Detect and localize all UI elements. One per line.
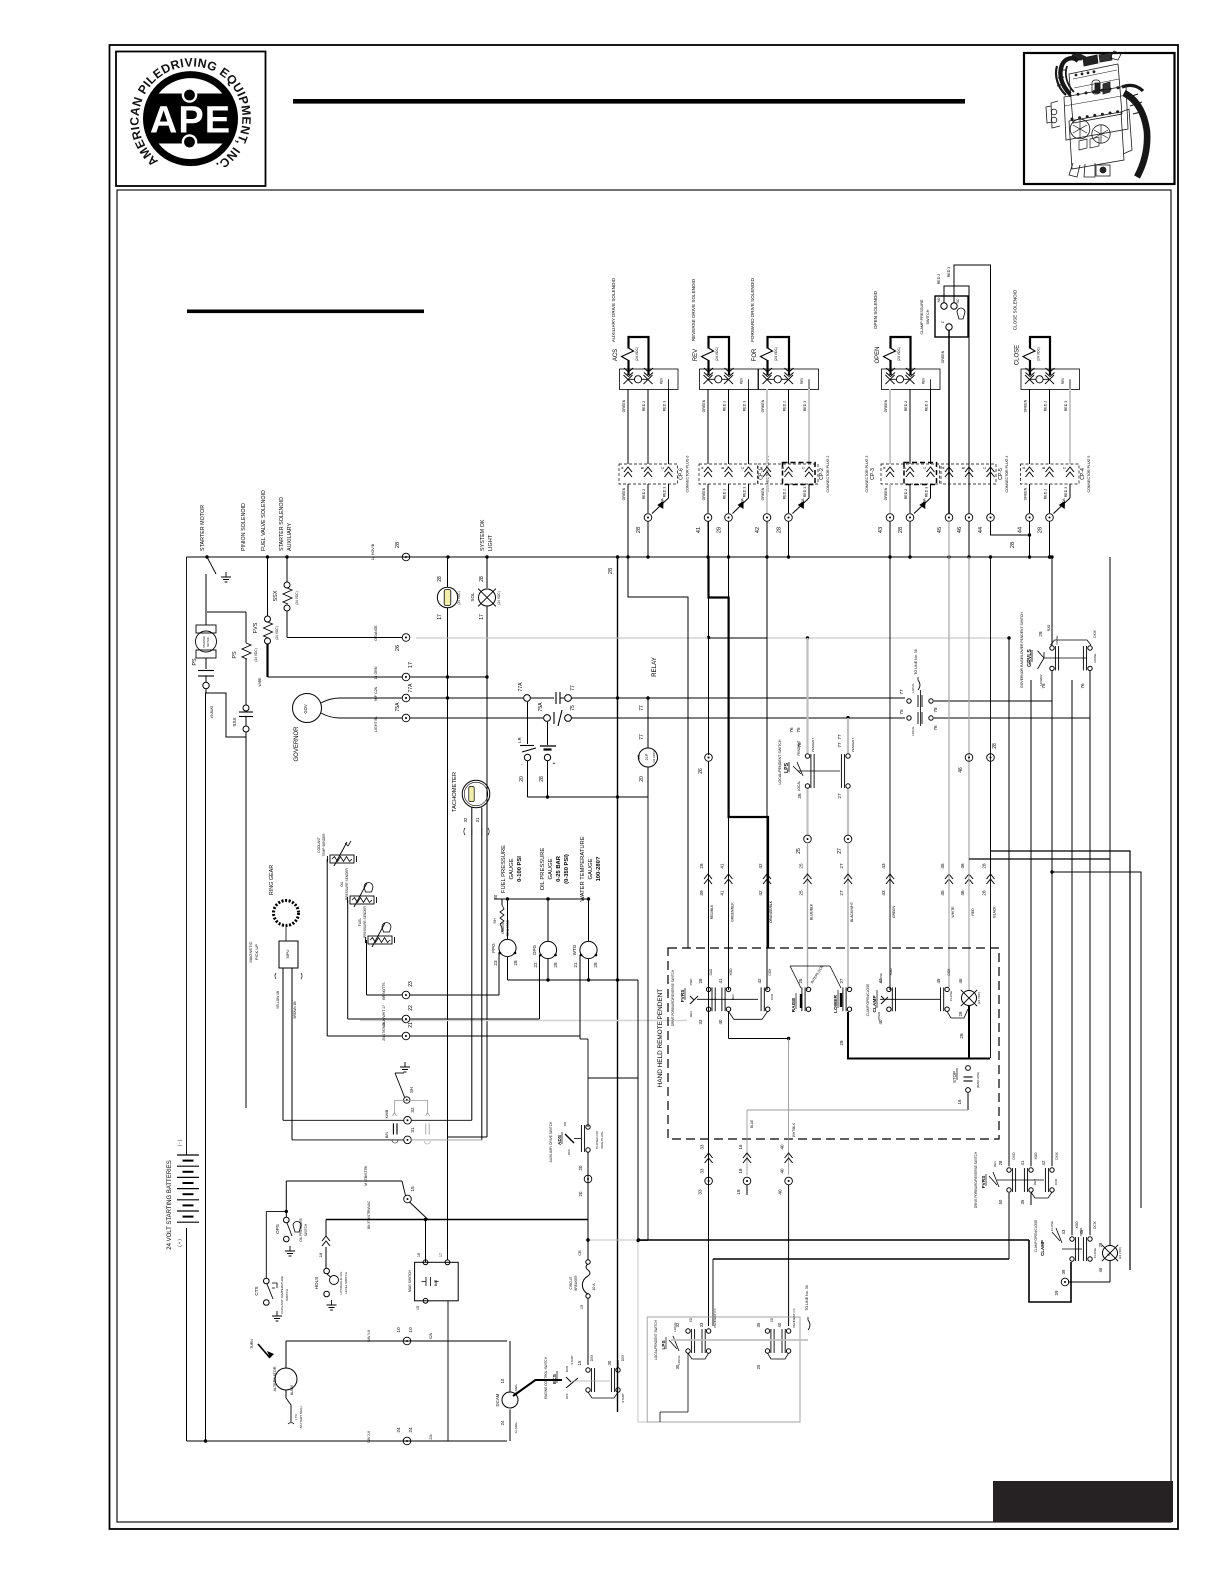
svg-text:WTG: WTG	[572, 944, 577, 955]
switch SH	[395, 1072, 404, 1074]
wire 27 to pendant	[847, 843, 849, 990]
svg-text:TACHOMETER: TACHOMETER	[452, 772, 458, 812]
svg-text:SWITCH: SWITCH	[304, 1223, 308, 1236]
svg-text:DOX: DOX	[768, 968, 772, 976]
wire PS branch down	[245, 737, 247, 1108]
contact FVRS 41	[726, 987, 730, 991]
svg-text:CP-4: CP-4	[1080, 468, 1086, 480]
svg-text:22: 22	[533, 962, 538, 968]
contact ECS 15	[586, 1368, 590, 1372]
wire OPEN coil loop	[891, 337, 911, 375]
svg-text:M 3TB/STTB: M 3TB/STTB	[364, 1165, 368, 1185]
svg-text:RED/BLK: RED/BLK	[710, 904, 714, 919]
svg-text:LOCAL: LOCAL	[911, 683, 915, 693]
svg-text:43: 43	[881, 863, 886, 869]
splice diode FOR	[793, 498, 810, 514]
svg-text:-: -	[521, 762, 523, 768]
terminal 21	[402, 1032, 410, 1040]
wire 35 run dark 1259	[713, 1258, 1009, 1260]
svg-text:YELLOW 1B: YELLOW 1B	[276, 991, 280, 1009]
svg-text:46: 46	[957, 527, 963, 533]
svg-text:RED 2: RED 2	[723, 489, 727, 500]
svg-text:RED 2: RED 2	[1044, 401, 1048, 412]
svg-text:PENDENT: PENDENT	[811, 738, 815, 753]
terminal 33 lower	[705, 1177, 713, 1185]
title underline	[187, 310, 424, 314]
wire LPS2 down	[687, 1353, 689, 1412]
svg-text:10: 10	[396, 1327, 402, 1333]
svg-text:CLOSE: CLOSE	[1050, 1221, 1054, 1231]
svg-text:C: C	[923, 466, 927, 469]
lamp G remote	[1103, 1246, 1118, 1261]
svg-text:ROOA: ROOA	[801, 497, 805, 507]
wire DCAM to ECS heavy	[513, 1380, 562, 1396]
tach wires	[471, 808, 473, 1121]
valve connector FOR	[759, 369, 819, 390]
circuit breaker CB	[586, 1260, 590, 1264]
svg-text:33: 33	[698, 1019, 703, 1024]
svg-text:77A: 77A	[408, 683, 414, 693]
wire ground branch	[206, 693, 246, 737]
svg-text:28: 28	[636, 527, 642, 533]
terminal 18 lower	[743, 1177, 751, 1185]
svg-text:A: A	[942, 466, 946, 469]
wire CLOSE B red2	[1049, 389, 1051, 464]
svg-text:20: 20	[639, 776, 645, 782]
svg-text:28: 28	[1038, 527, 1044, 533]
svg-text:28: 28	[982, 863, 987, 869]
svg-text:REV: REV	[693, 349, 699, 361]
svg-text:43: 43	[881, 890, 886, 896]
svg-text:ORANGE/BLK: ORANGE/BLK	[769, 900, 773, 923]
actuator FVRS	[697, 998, 758, 1000]
valve connector ACS	[620, 369, 679, 390]
svg-text:COOLANT: COOLANT	[317, 837, 321, 852]
wire ACS A green	[627, 389, 629, 464]
svg-text:30: 30	[675, 1364, 680, 1369]
svg-text:DRIVE FORWARD/REVERSE SWITCH: DRIVE FORWARD/REVERSE SWITCH	[671, 969, 675, 1026]
svg-text:BLK/WHT 1?: BLK/WHT 1?	[382, 1005, 386, 1025]
starter motor M	[205, 574, 207, 625]
svg-text:77: 77	[639, 734, 645, 740]
terminal 77A mid	[524, 695, 531, 702]
svg-text:46: 46	[1098, 1267, 1103, 1272]
terminal 28 splice	[987, 754, 995, 762]
jumper LPS2 a	[688, 1353, 709, 1359]
fuel pressure gauge FPG	[499, 939, 516, 956]
svg-text:16: 16	[738, 1144, 743, 1149]
wire 28 vertical main bus	[617, 557, 619, 1412]
splice diode CLOSE	[1054, 498, 1071, 514]
terminal 10	[403, 1337, 411, 1345]
svg-text:A: A	[621, 466, 625, 469]
wire 77A run	[410, 697, 523, 699]
svg-text:17: 17	[479, 614, 485, 620]
svg-text:(24 VDC): (24 VDC)	[977, 992, 981, 1005]
svg-text:15: 15	[580, 1305, 584, 1309]
splice 42 wire	[763, 874, 771, 884]
svg-text:FORWARD DRIVE SOLENOID: FORWARD DRIVE SOLENOID	[750, 277, 755, 341]
svg-text:OPEN: OPEN	[877, 1012, 881, 1021]
svg-text:ON: ON	[563, 1122, 567, 1127]
hydraulic oil level switch HOLS	[324, 1268, 330, 1274]
contact ADS	[586, 1125, 590, 1129]
wire LPS2 gray bus	[671, 1339, 808, 1341]
svg-text:75: 75	[899, 709, 904, 715]
contact clamp 45	[945, 987, 949, 991]
svg-text:PRESSURE SENDER: PRESSURE SENDER	[363, 905, 367, 937]
svg-text:B: B	[1042, 466, 1046, 469]
wire 77 lower gray	[847, 789, 849, 835]
svg-text:HAND HELD REMOTE PENDENT: HAND HELD REMOTE PENDENT	[657, 989, 664, 1087]
svg-text:DRIVE FORWARD/REVERSE SWITCH: DRIVE FORWARD/REVERSE SWITCH	[974, 1151, 978, 1208]
svg-text:START: START	[570, 1355, 574, 1365]
wire 41 heavy jog	[709, 557, 769, 948]
capacitor 28 plus	[547, 722, 549, 745]
svg-text:FUEL PRESSURE: FUEL PRESSURE	[501, 845, 507, 893]
resistor SSX upper	[286, 557, 288, 582]
connector plug CP-6	[619, 464, 678, 484]
contact LPS2 32	[686, 1329, 690, 1333]
svg-text:20: 20	[578, 1165, 583, 1170]
wire run dark 1219	[326, 1219, 588, 1221]
svg-text:LOCAL: LOCAL	[797, 781, 801, 792]
wire REV A green	[707, 389, 709, 464]
svg-text:41: 41	[720, 890, 725, 896]
svg-text:PS: PS	[232, 651, 238, 659]
svg-text:MAGNETIC: MAGNETIC	[248, 941, 253, 962]
svg-text:LEVEL SWITCH: LEVEL SWITCH	[344, 1272, 348, 1294]
switch pinion contact	[207, 557, 216, 574]
svg-text:START: START	[621, 1393, 625, 1403]
actuator FVRS3	[997, 1179, 1044, 1181]
svg-text:WIRE: WIRE	[258, 677, 262, 687]
svg-text:GREEN: GREEN	[1024, 487, 1028, 500]
actuator clamp	[880, 998, 940, 1000]
svg-text:FVS: FVS	[253, 622, 259, 633]
svg-text:96F C2N: 96F C2N	[374, 686, 378, 701]
svg-text:DXIX: DXIX	[1055, 1151, 1059, 1159]
svg-text:15: 15	[410, 1186, 416, 1192]
svg-text:44: 44	[1018, 527, 1024, 533]
mag switch box	[415, 1262, 459, 1301]
svg-text:CP-6: CP-6	[679, 468, 685, 480]
svg-text:41: 41	[696, 527, 702, 533]
wire 45 long	[948, 521, 950, 987]
svg-text:SH: SH	[409, 1087, 414, 1093]
wire 76 jumper	[934, 717, 1090, 719]
splice 46 wire	[965, 874, 973, 884]
svg-text:77: 77	[570, 685, 576, 691]
coil OPEN	[884, 348, 896, 361]
svg-text:(24 VDC): (24 VDC)	[1118, 1247, 1122, 1260]
svg-text:DXO: DXO	[1012, 1152, 1016, 1159]
wire GREEN clamp switch	[948, 330, 950, 514]
svg-text:RED 2: RED 2	[783, 489, 787, 500]
connector plug CP-1	[699, 464, 758, 484]
splice diode REV	[733, 498, 749, 514]
wire lamp G top	[1109, 1244, 1111, 1246]
svg-text:C: C	[661, 466, 665, 469]
terminal 22	[402, 1015, 410, 1023]
svg-text:RJO: RJO	[1047, 624, 1051, 631]
svg-text:28: 28	[593, 962, 598, 968]
svg-text:AUXILIARY DRIVE SWITCH: AUXILIARY DRIVE SWITCH	[549, 1121, 553, 1162]
svg-text:ROOA: ROOA	[922, 497, 926, 507]
svg-text:SOL: SOL	[470, 592, 475, 602]
svg-text:CLAMP OPEN/CLOSE: CLAMP OPEN/CLOSE	[866, 984, 870, 1017]
wire REV coil loop	[709, 337, 730, 375]
svg-text:17: 17	[408, 662, 414, 668]
svg-text:FUEL: FUEL	[358, 918, 362, 926]
svg-text:(24 VDC): (24 VDC)	[295, 591, 299, 604]
svg-text:(24 VDC): (24 VDC)	[1037, 347, 1041, 361]
wire mag switch feed 16	[425, 1220, 427, 1263]
svg-text:FWD: FWD	[689, 978, 693, 986]
svg-text:CONNECTOR PLUG 3: CONNECTOR PLUG 3	[865, 456, 869, 493]
terminal 26	[402, 634, 410, 642]
splice 43 wire	[886, 874, 894, 884]
svg-text:STOP: STOP	[952, 1071, 957, 1083]
wire 15 diagonal	[410, 1202, 429, 1220]
terminal 77 mid	[565, 695, 572, 702]
svg-text:SSX: SSX	[232, 717, 237, 726]
svg-text:GAUGE: GAUGE	[588, 858, 594, 879]
svg-text:RED 2: RED 2	[904, 489, 908, 500]
svg-text:41: 41	[720, 863, 725, 869]
ring gear	[274, 901, 299, 926]
svg-text:HOLS: HOLS	[314, 1277, 319, 1290]
wire 18 stub	[746, 1185, 748, 1195]
svg-text:WATER TEMPERATURE: WATER TEMPERATURE	[580, 836, 586, 901]
svg-text:RED 3: RED 3	[925, 401, 929, 412]
contact LPS 77	[846, 754, 850, 758]
wire green jog	[628, 557, 688, 948]
svg-text:26: 26	[797, 793, 802, 799]
wire CLOSE coil loop	[1030, 337, 1050, 375]
terminal 40 lower	[785, 1177, 793, 1185]
fuel pressure sender	[368, 936, 392, 944]
svg-text:ROOA: ROOA	[1062, 497, 1066, 507]
svg-text:20: 20	[756, 1364, 761, 1369]
alternator	[275, 1368, 297, 1390]
svg-text:DXIX: DXIX	[1093, 629, 1097, 637]
svg-text:(24 VDC): (24 VDC)	[774, 347, 778, 361]
valve connector OPEN	[882, 369, 941, 390]
svg-text:WHITE: WHITE	[951, 906, 955, 918]
terminal 46 splice	[965, 754, 973, 762]
oil pressure switch OPS	[284, 1217, 290, 1223]
wire 20 jumper h1078	[588, 1077, 638, 1079]
svg-text:27: 27	[837, 848, 843, 854]
wire mag switch 15 down	[447, 1301, 449, 1441]
svg-text:16: 16	[957, 1099, 962, 1104]
svg-text:CP-5: CP-5	[998, 468, 1004, 480]
splice 45 wire	[945, 874, 953, 884]
wire 28 dark drop	[1029, 1240, 1071, 1302]
wire 20 right rail	[1052, 872, 1141, 1208]
contact FVRS3 41	[1029, 1168, 1033, 1172]
contact FVRS 42	[766, 987, 770, 991]
svg-text:DCIX: DCIX	[1093, 1220, 1097, 1228]
svg-text:A: A	[701, 466, 705, 469]
svg-text:40: 40	[777, 1322, 782, 1327]
svg-text:78: 78	[933, 707, 938, 713]
splice 40 lower	[785, 1153, 793, 1163]
svg-text:40: 40	[778, 1189, 783, 1195]
svg-text:REV: REV	[922, 377, 926, 384]
wire FOR C red3	[808, 389, 810, 464]
jumper LPS2 b	[768, 1353, 789, 1359]
terminal 39 lower	[1109, 1261, 1111, 1282]
svg-text:18: 18	[318, 1252, 323, 1257]
actuator GRVLS	[1044, 657, 1087, 659]
svg-text:44: 44	[978, 527, 984, 533]
svg-text:21: 21	[408, 1022, 414, 1028]
svg-text:C: C	[941, 320, 945, 323]
svg-text:28: 28	[553, 962, 558, 968]
svg-text:BN 3TB/STRWNAC: BN 3TB/STRWNAC	[367, 1200, 371, 1229]
wire 44 staircase	[1008, 638, 1010, 1166]
svg-text:28: 28	[959, 1033, 964, 1039]
svg-text:STARTER: STARTER	[202, 636, 206, 648]
svg-text:ALTERNATOR: ALTERNATOR	[273, 1366, 277, 1391]
terminal 46	[965, 514, 973, 522]
svg-text:28: 28	[839, 1040, 844, 1046]
svg-text:INTERLOCK: INTERLOCK	[810, 964, 825, 984]
svg-text:PENDENT: PENDENT	[851, 738, 855, 753]
mpu wires	[282, 968, 284, 1120]
svg-text:#9 AWG: #9 AWG	[210, 705, 214, 718]
svg-text:75A: 75A	[395, 702, 401, 712]
svg-text:REV: REV	[800, 377, 804, 384]
wire ECS right	[617, 1360, 619, 1368]
alternator wires	[285, 1341, 287, 1368]
svg-text:OPS: OPS	[275, 1224, 280, 1234]
svg-text:GREEN: GREEN	[702, 487, 706, 500]
svg-text:43: 43	[878, 527, 884, 533]
svg-text:OIL: OIL	[340, 881, 344, 886]
svg-text:B: B	[781, 466, 785, 469]
contact 75 76 local	[907, 716, 911, 720]
contact ECS start	[616, 1368, 620, 1372]
svg-text:35: 35	[756, 1322, 761, 1327]
svg-text:BREAKER: BREAKER	[574, 1275, 578, 1291]
splice HOLS	[322, 1236, 330, 1246]
svg-text:28: 28	[698, 978, 703, 983]
svg-text:16: 16	[417, 1253, 421, 1257]
svg-text:28: 28	[898, 527, 904, 533]
svg-text:ORANGE: ORANGE	[374, 625, 378, 641]
svg-text:ENGINE CONTROL SWITCH: ENGINE CONTROL SWITCH	[544, 1356, 548, 1399]
clamp pressure switch	[935, 296, 968, 337]
svg-text:75: 75	[570, 705, 576, 711]
coil FOR	[761, 348, 773, 361]
svg-text:NC: NC	[956, 298, 960, 303]
svg-text:39: 39	[699, 890, 704, 896]
wire REV below plug	[707, 484, 709, 513]
svg-text:23: 23	[408, 981, 414, 987]
svg-text:GREEN: GREEN	[892, 905, 896, 918]
capacitor SSX lower	[245, 659, 247, 705]
svg-text:28: 28	[699, 863, 704, 869]
svg-text:77: 77	[899, 689, 904, 695]
contact clamp3 43	[1070, 1237, 1074, 1241]
logo box	[116, 52, 266, 187]
svg-text:DAV 9-8: DAV 9-8	[367, 1330, 371, 1342]
svg-text:RUN: RUN	[565, 1366, 569, 1373]
svg-text:41: 41	[1020, 1160, 1025, 1165]
svg-text:REVERSE DRIVE SOLENOID: REVERSE DRIVE SOLENOID	[691, 278, 696, 341]
svg-text:(24 VDC): (24 VDC)	[275, 626, 279, 639]
svg-text:15: 15	[416, 1306, 420, 1310]
wire 77 gray	[847, 718, 849, 753]
svg-text:(0-350 PSI): (0-350 PSI)	[564, 854, 570, 884]
stub to line 36	[808, 1317, 810, 1330]
svg-text:(24 VDC): (24 VDC)	[715, 347, 719, 361]
svg-text:SWITCH: SWITCH	[926, 309, 930, 324]
tachometer	[462, 780, 490, 808]
svg-text:CP-2: CP-2	[819, 468, 825, 480]
svg-text:S2N: S2N	[429, 1332, 433, 1339]
connector plug CP-4	[1021, 464, 1080, 484]
contact FVRS3 42	[1050, 1168, 1054, 1172]
svg-text:32: 32	[463, 817, 468, 822]
wire 40 jog	[728, 1012, 730, 1039]
svg-text:RED 3: RED 3	[743, 487, 747, 498]
svg-text:43: 43	[878, 978, 883, 983]
jumper GRVLS top	[1051, 640, 1092, 645]
svg-text:32: 32	[675, 1322, 680, 1327]
svg-text:RED 3: RED 3	[743, 401, 747, 412]
svg-text:FOR: FOR	[752, 348, 758, 361]
terminal 20	[584, 1175, 592, 1183]
svg-text:42: 42	[755, 527, 761, 533]
schematic area border	[117, 190, 1171, 1522]
svg-text:24: 24	[396, 1427, 402, 1433]
svg-text:12 AWG: 12 AWG	[514, 1422, 518, 1434]
wire CLOSE A green	[1029, 389, 1031, 464]
svg-text:21P: 21P	[645, 753, 649, 760]
svg-text:28: 28	[992, 743, 998, 749]
contact LPS2 40	[786, 1329, 790, 1333]
svg-text:77: 77	[837, 742, 842, 748]
svg-text:RING GEAR: RING GEAR	[269, 865, 275, 895]
svg-text:45: 45	[940, 890, 945, 896]
wire RED 3 clamp switch	[954, 265, 991, 514]
wire 25 to pendant	[807, 843, 809, 990]
wire 26 vertical	[708, 638, 710, 754]
svg-text:B: B	[903, 466, 907, 469]
svg-text:RED 2: RED 2	[642, 489, 646, 500]
svg-text:39: 39	[1054, 1290, 1059, 1295]
svg-text:77: 77	[837, 734, 842, 740]
svg-text:77A: 77A	[518, 682, 524, 692]
svg-text:XOO: XOO	[1075, 1221, 1079, 1229]
wire 50 drop	[1008, 1193, 1010, 1259]
svg-text:XOO: XOO	[1034, 1152, 1038, 1160]
svg-text:RELAY: RELAY	[651, 657, 658, 677]
terminal 28	[644, 514, 652, 522]
svg-text:MAG SWITCH: MAG SWITCH	[408, 1269, 412, 1292]
svg-text:LOCAL: LOCAL	[911, 726, 915, 736]
svg-text:21: 21	[573, 962, 578, 968]
wire 15 OPS	[285, 1181, 287, 1217]
svg-text:BLUE/BLK: BLUE/BLK	[810, 903, 814, 920]
svg-text:27: 27	[839, 978, 844, 983]
wire ACS B red2	[647, 389, 649, 464]
contact GRVLS lower	[1088, 646, 1092, 650]
